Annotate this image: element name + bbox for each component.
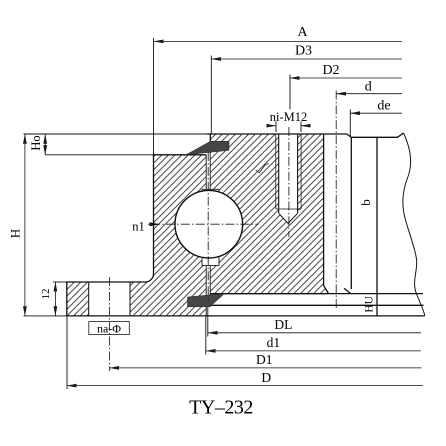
dimension DL — [208, 332, 421, 334]
top seal (dark wedge) — [186, 141, 229, 155]
inner ring bottom — [210, 293, 328, 295]
flange bolt hole white — [89, 281, 130, 316]
dimension A — [154, 40, 402, 42]
outer ring outline — [67, 155, 425, 316]
dimension D1 — [109, 367, 421, 369]
dimension D2 — [290, 77, 402, 79]
support wall verticals — [344, 137, 377, 316]
surface roughness tick — [256, 164, 269, 173]
outer ring left edge and flange fillet — [67, 155, 154, 316]
dimension H — [24, 134, 26, 316]
inner ring outline — [206, 133, 403, 294]
svg-text:na-Φ: na-Φ — [97, 321, 121, 335]
svg-text:d: d — [365, 79, 372, 94]
svg-text:b: b — [358, 199, 373, 206]
top face of outer ring — [154, 154, 207, 156]
ball — [175, 190, 243, 258]
svg-text:n1: n1 — [132, 220, 145, 234]
svg-text:12: 12 — [40, 289, 52, 300]
centerline ball horizontal — [151, 223, 258, 225]
svg-text:d1: d1 — [267, 335, 281, 350]
svg-text:de: de — [377, 98, 390, 113]
svg-text:TY–232: TY–232 — [189, 396, 253, 418]
dimension D — [67, 385, 423, 387]
svg-text:D3: D3 — [295, 44, 312, 59]
extension lines — [24, 38, 351, 389]
centerline gear pitch — [335, 91, 337, 309]
tapped hole ni-M12 — [276, 134, 301, 223]
svg-text:H: H — [8, 229, 23, 238]
dimension Ho — [44, 134, 46, 155]
raceway gap white column — [206, 155, 210, 297]
break wavy line — [403, 133, 425, 316]
seam gap lines — [206, 141, 210, 354]
svg-text:A: A — [297, 25, 308, 40]
inner ring (hatched section) — [210, 134, 328, 294]
dimension de — [350, 112, 402, 114]
dimension D3 — [211, 58, 402, 60]
svg-text:DL: DL — [274, 317, 292, 332]
outer ring with flange (hatched section) — [67, 155, 206, 316]
inner ring right edge with chamfer — [324, 134, 329, 294]
svg-text:D: D — [261, 370, 271, 385]
centerline seam vertical — [207, 152, 209, 300]
centerline tapped hole — [288, 127, 290, 237]
svg-text:D2: D2 — [322, 63, 339, 78]
baseline bottom surface — [67, 315, 425, 317]
centerline flange hole — [108, 277, 110, 371]
svg-text:D1: D1 — [256, 352, 273, 367]
svg-text:Ho: Ho — [29, 135, 43, 150]
inner ring top surface — [206, 133, 403, 137]
support plate lines — [210, 294, 423, 306]
tapped hole bore white — [279, 134, 298, 223]
inner ring left upper edge — [209, 134, 211, 141]
bottom seal (dark wedge) — [188, 294, 225, 307]
flange hole edges — [89, 282, 130, 316]
svg-text:ni-M12: ni-M12 — [270, 110, 308, 124]
label na-Phi box — [89, 322, 130, 335]
svg-text:HU: HU — [363, 295, 375, 312]
raceway shoulder lines — [202, 189, 219, 265]
dimension d1 — [206, 350, 421, 352]
dimension 12 flange thickness — [54, 282, 56, 316]
raceway shoulder opening — [202, 189, 219, 265]
dimension d — [336, 93, 402, 95]
